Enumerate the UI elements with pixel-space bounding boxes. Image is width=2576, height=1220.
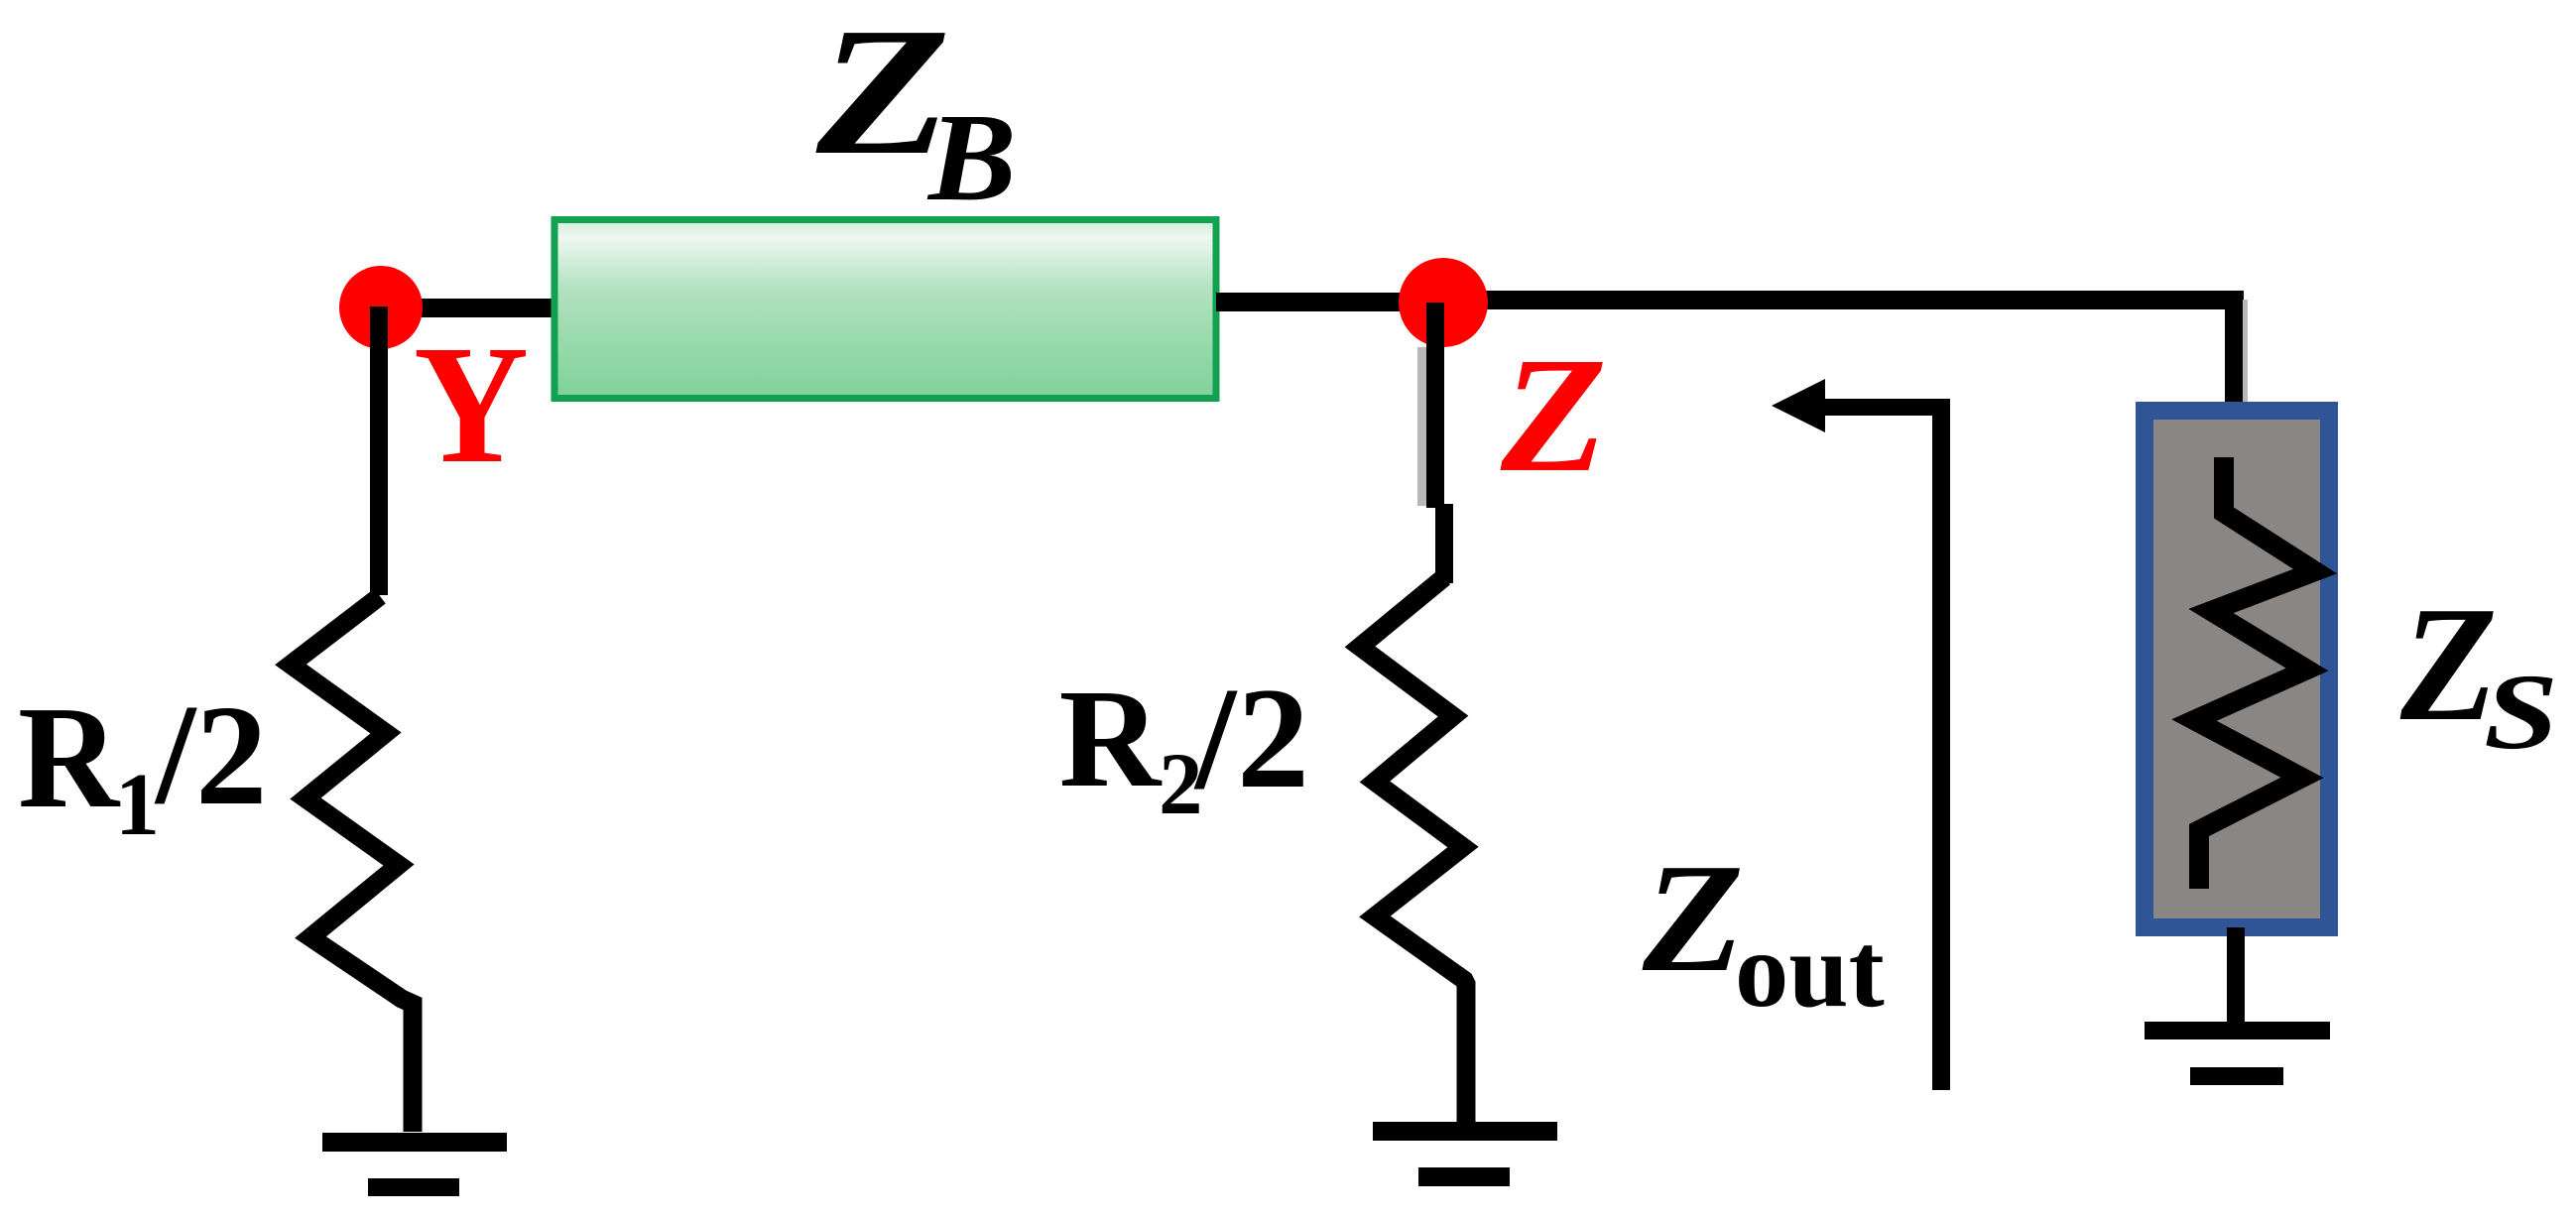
wire Y to ZB box bbox=[377, 299, 555, 317]
ground (R2) bbox=[1373, 1122, 1557, 1141]
wire ZS box to ground bbox=[2227, 927, 2245, 1027]
svg-text:2: 2 bbox=[1237, 658, 1309, 818]
wire shadow (left of R2 stem) bbox=[1417, 347, 1426, 506]
transmission line ZB (green box) bbox=[554, 220, 1216, 399]
svg-text:Y: Y bbox=[414, 309, 529, 498]
ZS internal zigzag bbox=[2194, 457, 2315, 889]
svg-text:R: R bbox=[18, 676, 121, 839]
svg-text:Z: Z bbox=[1642, 832, 1744, 1005]
svg-text:/: / bbox=[154, 675, 197, 834]
svg-text:2: 2 bbox=[195, 676, 268, 835]
resistor R2/2 zigzag bbox=[1360, 577, 1466, 1127]
node Z bbox=[1399, 258, 1488, 347]
svg-text:1: 1 bbox=[115, 756, 160, 854]
svg-text:Z: Z bbox=[2399, 573, 2498, 755]
wire shadow (right of corner wire) bbox=[2243, 300, 2248, 403]
svg-text:S: S bbox=[2484, 652, 2558, 772]
wire corner down to ZS box bbox=[2225, 291, 2243, 403]
svg-text:Z: Z bbox=[1500, 323, 1607, 506]
resistor R2/2 wire from Z bbox=[1426, 303, 1444, 508]
svg-text:/: / bbox=[1193, 658, 1238, 820]
wire node Z to right corner bbox=[1443, 291, 2244, 309]
ground (ZS) bbox=[2145, 1022, 2330, 1039]
resistor R1/2 wire from Y bbox=[370, 306, 388, 595]
node Y bbox=[339, 266, 423, 349]
resistor R1/2 zigzag bbox=[291, 596, 413, 1132]
impedance ZS (grey box, blue border) bbox=[2145, 411, 2329, 927]
svg-text:out: out bbox=[1735, 911, 1885, 1030]
Zout arrow bbox=[1772, 379, 1825, 432]
svg-text:R: R bbox=[1059, 660, 1163, 816]
ground (R1) bbox=[322, 1133, 507, 1152]
wire ZB box to node Z bbox=[1216, 293, 1444, 311]
svg-text:B: B bbox=[926, 88, 1017, 227]
